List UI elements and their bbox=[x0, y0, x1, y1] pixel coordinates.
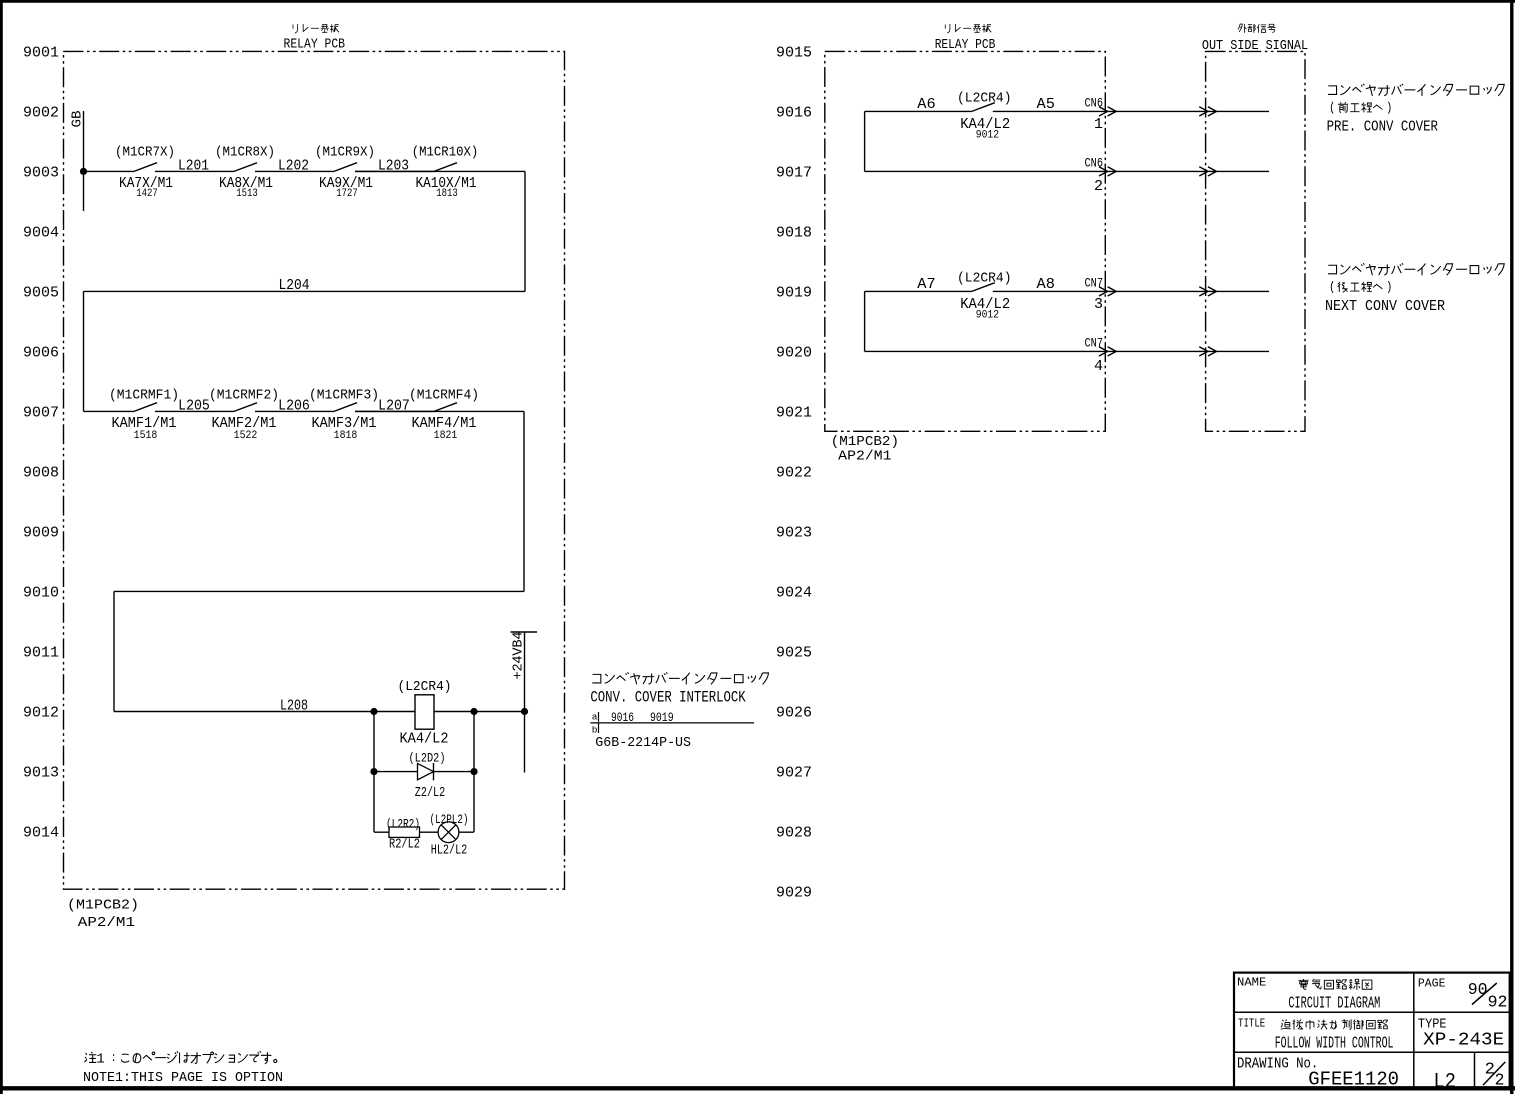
svg-text:OUT SIDE SIGNAL: OUT SIDE SIGNAL bbox=[1202, 38, 1308, 54]
svg-text:A6: A6 bbox=[917, 96, 935, 113]
svg-text:NOTE1:THIS PAGE IS OPTION: NOTE1:THIS PAGE IS OPTION bbox=[83, 1070, 283, 1086]
svg-text:(L2D2): (L2D2) bbox=[409, 752, 446, 766]
svg-text:NEXT CONV COVER: NEXT CONV COVER bbox=[1325, 299, 1445, 315]
svg-text:GFEE1120: GFEE1120 bbox=[1308, 1069, 1399, 1091]
svg-text:(M1CRMF2): (M1CRMF2) bbox=[209, 389, 279, 404]
svg-text:9011: 9011 bbox=[23, 646, 59, 662]
svg-text:AP2/M1: AP2/M1 bbox=[78, 915, 135, 931]
svg-text:(M1CRMF3): (M1CRMF3) bbox=[309, 389, 379, 404]
svg-text:9008: 9008 bbox=[23, 466, 59, 482]
svg-text:(M1CRMF1): (M1CRMF1) bbox=[109, 389, 179, 404]
wire L208 bbox=[114, 711, 525, 713]
wire 9003 with relay contacts bbox=[84, 170, 135, 172]
svg-text:PRE. CONV COVER: PRE. CONV COVER bbox=[1327, 120, 1439, 136]
svg-text:9007: 9007 bbox=[23, 406, 59, 422]
svg-text:9001: 9001 bbox=[23, 46, 59, 62]
label コンベヤカバーインターロック bbox=[592, 672, 768, 684]
svg-text:FOLLOW WIDTH CONTROL: FOLLOW WIDTH CONTROL bbox=[1275, 1033, 1394, 1052]
svg-text:9025: 9025 bbox=[776, 646, 812, 662]
svg-text:XP-243E: XP-243E bbox=[1423, 1029, 1504, 1051]
wire 9010 bbox=[114, 590, 524, 592]
svg-text:PAGE: PAGE bbox=[1418, 977, 1446, 991]
svg-text:1518: 1518 bbox=[134, 430, 158, 442]
svg-text:9015: 9015 bbox=[776, 46, 812, 62]
svg-text:TITLE: TITLE bbox=[1238, 1016, 1265, 1030]
svg-text:9013: 9013 bbox=[23, 766, 59, 782]
label リレー基板 bbox=[293, 24, 339, 33]
wire 9007 to 9010 bbox=[523, 411, 525, 591]
svg-text:1522: 1522 bbox=[234, 430, 258, 442]
svg-text:2: 2 bbox=[1495, 1071, 1505, 1090]
svg-text:L2: L2 bbox=[1434, 1071, 1456, 1094]
svg-text:1513: 1513 bbox=[236, 188, 258, 200]
relay PCB outline right (M1PCB2) bbox=[825, 51, 1106, 431]
wire 9013 diode branch bbox=[374, 771, 474, 773]
svg-text:KA4/L2: KA4/L2 bbox=[400, 730, 449, 747]
svg-text:1727: 1727 bbox=[336, 188, 358, 200]
svg-text:CONV. COVER INTERLOCK: CONV. COVER INTERLOCK bbox=[590, 688, 746, 706]
svg-text:9028: 9028 bbox=[776, 826, 812, 842]
svg-text:(M1PCB2): (M1PCB2) bbox=[67, 898, 139, 914]
svg-text:9014: 9014 bbox=[23, 826, 59, 842]
svg-text:9003: 9003 bbox=[23, 166, 59, 182]
svg-text:+24VB4: +24VB4 bbox=[511, 632, 526, 680]
GB bus vertical wire bbox=[83, 111, 85, 211]
svg-text:A5: A5 bbox=[1037, 96, 1055, 113]
svg-text:1: 1 bbox=[1094, 116, 1103, 133]
svg-text:9029: 9029 bbox=[776, 886, 812, 902]
svg-text:9020: 9020 bbox=[776, 346, 812, 362]
svg-text:9002: 9002 bbox=[23, 106, 59, 122]
svg-text:(M1CR10X): (M1CR10X) bbox=[412, 146, 479, 161]
contact (M1CRMF1) KAMF1/M1 bbox=[134, 403, 157, 412]
svg-text:(M1CR9X): (M1CR9X) bbox=[315, 146, 375, 161]
svg-text:9022: 9022 bbox=[776, 466, 812, 482]
svg-text:A8: A8 bbox=[1037, 276, 1055, 293]
svg-text:9023: 9023 bbox=[776, 526, 812, 542]
svg-text:L208: L208 bbox=[280, 699, 308, 715]
relay coil L2CR4 KA4/L2 bbox=[415, 695, 434, 729]
svg-text:(L2CR4): (L2CR4) bbox=[957, 272, 1012, 287]
wire 9010 to 9012 bbox=[113, 591, 115, 711]
wire contact A5 to CN6 pin 1 bbox=[993, 110, 1269, 112]
junction 9013 right bbox=[470, 768, 477, 775]
svg-text:a: a bbox=[592, 712, 598, 723]
contact (M1CR7X) KA7X/M1 bbox=[134, 163, 157, 172]
svg-text:HL2/L2: HL2/L2 bbox=[431, 843, 468, 858]
svg-text:Z2/L2: Z2/L2 bbox=[415, 786, 446, 801]
junction 9012 right bbox=[470, 708, 477, 715]
pilot lamp L2PL2 HL2/L2 bbox=[438, 822, 459, 843]
svg-text:L201: L201 bbox=[178, 159, 209, 175]
svg-text:R2/L2: R2/L2 bbox=[389, 838, 420, 853]
svg-text:AP2/M1: AP2/M1 bbox=[838, 449, 891, 465]
junction GB/9003 bbox=[80, 168, 87, 175]
contact (M1CRMF3) KAMF3/M1 bbox=[334, 403, 357, 412]
wire branch right 9012-9014 bbox=[473, 712, 475, 833]
svg-text:9006: 9006 bbox=[23, 346, 59, 362]
wire L204 bbox=[84, 290, 526, 292]
svg-text:1821: 1821 bbox=[434, 430, 458, 442]
contact (M1CRMF2) KAMF2/M1 bbox=[234, 403, 257, 412]
contact (M1CR8X) KA8X/M1 bbox=[234, 163, 257, 172]
svg-text:9009: 9009 bbox=[23, 526, 59, 542]
contact (M1CRMF4) KAMF4/M1 bbox=[434, 403, 457, 412]
wire 9003 to 9005 bbox=[524, 171, 526, 291]
contact (M1CR10X) KA10X/M1 bbox=[434, 163, 457, 172]
svg-text:(L2CR4): (L2CR4) bbox=[398, 680, 452, 695]
svg-text:(M1CR7X): (M1CR7X) bbox=[115, 146, 175, 161]
svg-text:1818: 1818 bbox=[334, 430, 358, 442]
svg-text:1: 1 bbox=[96, 1051, 104, 1067]
label 外部信号 bbox=[1238, 24, 1276, 33]
svg-text:1813: 1813 bbox=[436, 188, 458, 200]
+24VB4 supply line bbox=[524, 632, 526, 773]
wire return to CN7 pin 4 bbox=[865, 350, 1269, 352]
svg-text:DRAWING No.: DRAWING No. bbox=[1237, 1054, 1318, 1072]
wire contact A8 to CN7 pin 3 bbox=[993, 290, 1269, 292]
svg-text:(L2R2): (L2R2) bbox=[386, 817, 420, 831]
svg-text:L202: L202 bbox=[278, 159, 309, 175]
label コンベヤカバーインターロック (前工程へ) bbox=[1328, 84, 1504, 96]
svg-text:L204: L204 bbox=[279, 278, 310, 294]
contact L2CR4 A6-A5 to CN6 pins 1,2 bbox=[972, 103, 995, 112]
contact L2CR4 A7-A8 to CN7 pins 3,4 bbox=[972, 283, 995, 292]
label 電気回路線図 bbox=[1298, 979, 1371, 990]
label 追従巾決め制御回路 bbox=[1281, 1019, 1388, 1029]
wire return to CN6 pin 2 bbox=[865, 170, 1269, 172]
svg-text:GB: GB bbox=[70, 111, 86, 128]
svg-text:L205: L205 bbox=[178, 399, 210, 415]
wire A7-A8 left vertical bbox=[864, 291, 866, 351]
svg-text:3: 3 bbox=[1094, 296, 1103, 313]
svg-text:RELAY PCB: RELAY PCB bbox=[284, 37, 346, 53]
svg-text:2: 2 bbox=[1094, 178, 1103, 195]
svg-text:9005: 9005 bbox=[23, 286, 59, 302]
svg-text:G6B-2214P-US: G6B-2214P-US bbox=[595, 735, 691, 751]
wire 9007 with relay contacts bbox=[84, 410, 135, 412]
svg-text:L203: L203 bbox=[378, 159, 409, 175]
svg-text:9010: 9010 bbox=[23, 586, 59, 602]
svg-text:9017: 9017 bbox=[776, 166, 812, 182]
svg-text:1427: 1427 bbox=[136, 188, 158, 200]
svg-text:A7: A7 bbox=[917, 276, 935, 293]
svg-text:L206: L206 bbox=[278, 399, 310, 415]
resistor L2R2 R2/L2 bbox=[389, 827, 420, 837]
svg-text:9012: 9012 bbox=[976, 129, 999, 141]
svg-text:9026: 9026 bbox=[776, 706, 812, 722]
svg-text:9012: 9012 bbox=[23, 706, 59, 722]
wire 9014 resistor-lamp branch bbox=[374, 831, 474, 833]
wire to contact A6 bbox=[865, 110, 972, 112]
svg-text:NAME: NAME bbox=[1237, 975, 1266, 989]
svg-text:(M1CRMF4): (M1CRMF4) bbox=[409, 389, 479, 404]
junction 9012 left bbox=[370, 708, 377, 715]
svg-text:CIRCUIT DIAGRAM: CIRCUIT DIAGRAM bbox=[1288, 994, 1380, 1013]
note 注1：このページはオプションです。 bbox=[84, 1051, 276, 1067]
svg-text:9012: 9012 bbox=[976, 309, 999, 321]
wire branch left 9012-9014 bbox=[373, 712, 375, 833]
wire A6-A5 left vertical bbox=[864, 111, 866, 171]
svg-text:RELAY PCB: RELAY PCB bbox=[935, 37, 996, 53]
svg-text:L207: L207 bbox=[378, 399, 410, 415]
label コンベヤカバーインターロック (後工程へ) bbox=[1328, 263, 1504, 275]
svg-text:9019: 9019 bbox=[776, 286, 812, 302]
svg-text:(L2PL2): (L2PL2) bbox=[430, 813, 469, 827]
wire to contact A7 bbox=[865, 290, 972, 292]
wire 9005 to 9007 bbox=[83, 291, 85, 411]
svg-text:92: 92 bbox=[1488, 992, 1508, 1011]
svg-text:2: 2 bbox=[1485, 1060, 1495, 1079]
svg-text:9018: 9018 bbox=[776, 226, 812, 242]
relay PCB board outline (M1PCB2) bbox=[64, 51, 565, 889]
svg-text:9021: 9021 bbox=[776, 406, 812, 422]
svg-text:(L2CR4): (L2CR4) bbox=[957, 92, 1012, 107]
svg-text:(M1CR8X): (M1CR8X) bbox=[215, 146, 275, 161]
svg-text:b: b bbox=[592, 724, 598, 735]
svg-text:4: 4 bbox=[1094, 358, 1103, 375]
junction 9012 +24VB4 bbox=[521, 708, 528, 715]
OUT SIDE SIGNAL box outline bbox=[1206, 51, 1305, 431]
label リレー基板 right bbox=[945, 24, 991, 33]
title block bbox=[1234, 973, 1510, 1089]
contact (M1CR9X) KA9X/M1 bbox=[334, 163, 357, 172]
svg-text:9016: 9016 bbox=[776, 106, 812, 122]
junction 9013 left bbox=[370, 768, 377, 775]
svg-text:90: 90 bbox=[1468, 980, 1488, 999]
svg-text:9024: 9024 bbox=[776, 586, 812, 602]
svg-text:9027: 9027 bbox=[776, 766, 812, 782]
diode L2D2 Z2/L2 bbox=[418, 763, 434, 779]
svg-text:9004: 9004 bbox=[23, 226, 59, 242]
